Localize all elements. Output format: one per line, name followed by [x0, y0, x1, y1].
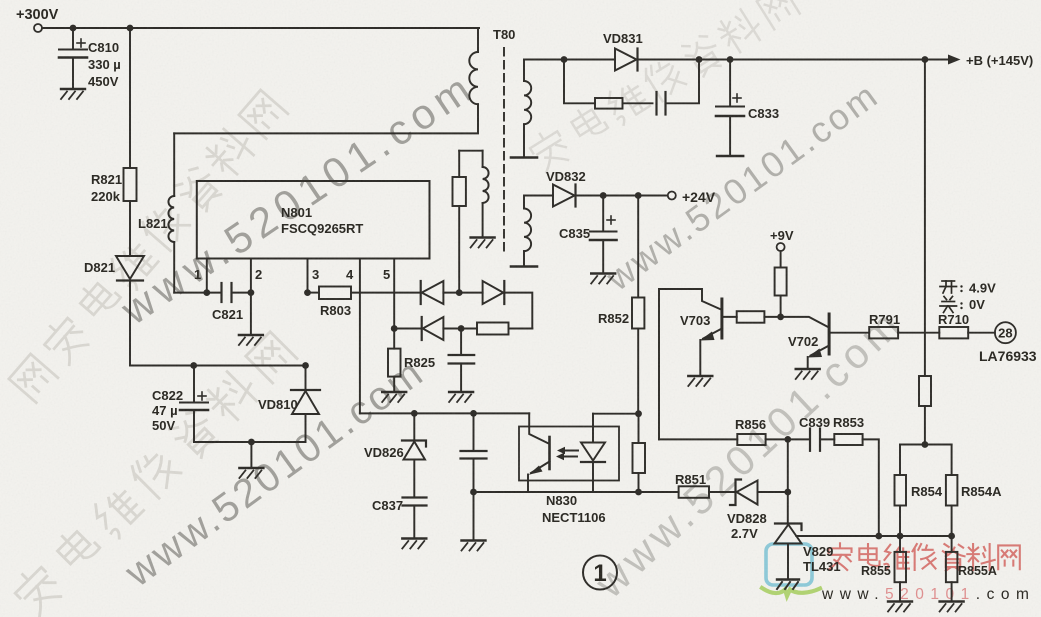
svg-text:4.9V: 4.9V	[969, 281, 996, 296]
terminal +300V	[34, 24, 42, 32]
ground secondary 1	[511, 157, 537, 159]
svg-text:V829: V829	[803, 544, 833, 559]
node snubber right	[696, 56, 703, 63]
ground row2 snub	[449, 392, 473, 402]
wire R856 row	[659, 438, 737, 440]
resistor R825	[388, 329, 401, 391]
svg-text:1: 1	[194, 267, 201, 282]
ground R855	[888, 602, 912, 612]
resistor snubber (unlabeled)	[564, 60, 653, 109]
svg-text:+B (+145V): +B (+145V)	[966, 53, 1033, 68]
node junction R821	[127, 25, 134, 32]
svg-text:www.520101.com: www.520101.com	[585, 298, 911, 607]
pin 4 stub	[359, 259, 361, 414]
resistor R854A	[946, 445, 958, 537]
capacitor row2 snub	[449, 329, 475, 391]
wire +300V rail	[42, 27, 479, 29]
node junction C822 top	[190, 362, 197, 369]
svg-text:1: 1	[593, 560, 606, 587]
resistor row2 (unlabeled)	[461, 323, 532, 335]
resistor R853	[834, 434, 879, 536]
wire V703 collector feed	[659, 289, 721, 439]
transformer T80 core	[503, 48, 505, 255]
transformer T80 secondary 1	[524, 60, 531, 157]
svg-text:C833: C833	[748, 106, 779, 121]
node junction C810	[70, 25, 77, 32]
node pin5	[391, 325, 422, 332]
resistor +B sense (unlabeled)	[919, 376, 931, 445]
resistor R854	[895, 445, 907, 537]
node pin2	[248, 289, 255, 334]
ground C810	[61, 89, 85, 99]
capacitor C822	[180, 366, 208, 443]
circled number 1	[583, 556, 617, 590]
arrow +B output	[948, 55, 961, 65]
node junction VD810 top	[302, 362, 309, 369]
node C833 tap	[727, 56, 734, 63]
svg-text:3: 3	[312, 267, 319, 282]
zener VD826	[402, 413, 426, 497]
svg-text:0V: 0V	[969, 297, 985, 312]
diode D row1 left	[421, 281, 460, 304]
svg-text:R854A: R854A	[961, 484, 1002, 499]
svg-text:TL431: TL431	[803, 559, 841, 574]
svg-text:R855A: R855A	[958, 564, 997, 578]
svg-text:R803: R803	[320, 303, 351, 318]
ground midcap	[462, 541, 486, 551]
pin 28 circle LA76933	[995, 322, 1016, 343]
ground C822 row	[239, 468, 263, 478]
node midcap tap	[470, 410, 477, 417]
capacitor C810	[59, 28, 87, 88]
svg-text:C835: C835	[559, 226, 590, 241]
inductor L821	[168, 133, 206, 292]
zener VD828	[730, 480, 788, 506]
optocoupler N830 box	[519, 427, 619, 481]
terminal +24V	[668, 192, 676, 200]
svg-text:R855: R855	[861, 564, 891, 578]
node R855 top	[897, 533, 904, 540]
svg-text:C839: C839	[799, 415, 830, 430]
op-amp U1 IC N801 box	[197, 181, 430, 259]
svg-text:www.520101.com: www.520101.com	[112, 62, 484, 334]
capacitor C837	[403, 498, 427, 538]
svg-text:T80: T80	[493, 27, 515, 42]
svg-text:50V: 50V	[152, 418, 175, 433]
node divider split	[900, 441, 952, 448]
ground pin2	[239, 335, 263, 345]
watermark logo tv	[762, 544, 820, 596]
svg-text:R825: R825	[404, 355, 435, 370]
svg-text:5: 5	[383, 267, 390, 282]
svg-text:330 µ: 330 µ	[88, 57, 121, 72]
svg-text:V703: V703	[680, 313, 710, 328]
node +B sense tap	[922, 56, 929, 63]
diode D821	[116, 256, 144, 366]
resistor R791	[829, 327, 939, 338]
wire +B sense column	[924, 60, 926, 377]
svg-text:FSCQ9265RT: FSCQ9265RT	[281, 221, 363, 236]
svg-text:2.7V: 2.7V	[731, 526, 758, 541]
wire ref row	[879, 535, 952, 537]
glyph guan (off)	[940, 297, 963, 313]
resistor R803	[308, 287, 421, 300]
wire C822 bottom row	[194, 441, 306, 443]
terminal +9V	[777, 243, 785, 251]
wire LED anode to R852	[593, 413, 639, 415]
node R855A top	[948, 533, 955, 540]
diode D row1 right	[459, 281, 532, 329]
capacitor C839	[788, 429, 835, 451]
ground R825	[382, 392, 406, 402]
capacitor C821	[207, 283, 251, 302]
svg-text:R710: R710	[938, 312, 969, 327]
glyph kai (on)	[940, 281, 963, 293]
diode opto LED	[581, 414, 605, 492]
svg-text:4: 4	[346, 267, 354, 282]
shunt regulator V829 TL431	[775, 524, 879, 590]
svg-text:L821: L821	[138, 216, 168, 231]
ground C833	[717, 155, 743, 157]
svg-text:220k: 220k	[91, 189, 121, 204]
transistor opto phototransistor	[528, 413, 550, 492]
svg-text:28: 28	[998, 326, 1012, 341]
node junction ground tap	[248, 439, 255, 467]
watermark chinese diagonal top-left	[9, 90, 288, 403]
resistor sense (unlabeled)	[453, 151, 483, 293]
svg-text:V702: V702	[788, 334, 818, 349]
svg-text:C810: C810	[88, 40, 119, 55]
capacitor C835	[590, 196, 617, 273]
node ref R853	[875, 533, 882, 540]
svg-text:N830: N830	[546, 493, 577, 508]
svg-text:R853: R853	[833, 415, 864, 430]
node row2 cap tap	[458, 325, 465, 332]
wire opto bottom row	[474, 491, 639, 493]
pin 3 stub	[307, 259, 309, 293]
resistor opto (unlabeled)	[633, 414, 646, 492]
ground secondary 2	[511, 266, 537, 268]
transformer T80 primary winding	[174, 28, 478, 133]
node pin3	[304, 289, 311, 296]
svg-text:R821: R821	[91, 172, 122, 187]
resistor R851	[639, 486, 735, 498]
resistor R855A	[946, 536, 958, 600]
svg-text:R854: R854	[911, 484, 943, 499]
node pin1	[203, 289, 210, 296]
resistor R821	[124, 28, 137, 256]
node R852 bottom	[635, 410, 642, 417]
node TL431 cathode column	[784, 489, 791, 496]
svg-text:VD832: VD832	[546, 169, 586, 184]
svg-text:VD826: VD826	[364, 445, 404, 460]
diode VD810	[291, 366, 320, 443]
resistor R855	[895, 536, 907, 600]
resistor R852	[632, 196, 644, 414]
transistor V703	[700, 299, 722, 375]
ground V702	[796, 369, 820, 379]
diode VD832	[553, 185, 668, 207]
svg-text:C837: C837	[372, 498, 403, 513]
diode VD831	[615, 49, 948, 71]
capacitor snubber (unlabeled)	[657, 60, 700, 115]
transformer T80 secondary 2	[524, 196, 553, 266]
watermark chinese diagonal bottom-left	[10, 332, 297, 617]
svg-text:VD810: VD810	[258, 397, 298, 412]
node snubber left	[561, 56, 568, 63]
svg-text:C822: C822	[152, 388, 183, 403]
svg-text:D821: D821	[84, 260, 115, 275]
svg-text:LA76933: LA76933	[979, 348, 1037, 364]
node R852 top	[635, 192, 642, 199]
svg-text:VD831: VD831	[603, 31, 643, 46]
svg-text:NECT1106: NECT1106	[542, 510, 606, 525]
svg-text:+9V: +9V	[770, 228, 794, 243]
ground V703	[688, 376, 712, 386]
svg-text:+24V: +24V	[682, 189, 716, 205]
svg-text:www.520101.com: www.520101.com	[821, 586, 1035, 603]
svg-text:2: 2	[255, 267, 262, 282]
node R856-C839 junction	[784, 436, 791, 524]
pin 1 stub	[206, 259, 208, 293]
resistor V703 base (unlabeled)	[722, 311, 781, 323]
node midcap bottom	[470, 489, 477, 539]
svg-text:450V: 450V	[88, 74, 119, 89]
svg-text:R852: R852	[598, 311, 629, 326]
watermark chinese diagonal top-middle	[526, 0, 799, 174]
ground C837	[402, 539, 426, 549]
watermark red chinese bottom-right	[828, 543, 1019, 570]
resistor R856	[737, 434, 788, 445]
svg-text:+300V: +300V	[16, 7, 59, 23]
pin 2 stub	[250, 259, 252, 293]
capacitor C833	[716, 60, 744, 155]
node VD826 tap	[411, 410, 418, 417]
wire +B rail	[524, 59, 615, 61]
resistor R710	[939, 327, 995, 338]
inductor sense winding	[483, 151, 489, 236]
svg-text:R791: R791	[869, 312, 900, 327]
svg-text:47 µ: 47 µ	[152, 403, 178, 418]
ground C835	[591, 274, 615, 284]
svg-text:C821: C821	[212, 307, 243, 322]
svg-text:R856: R856	[735, 417, 766, 432]
resistor +9V (unlabeled)	[775, 251, 787, 317]
pin 5 stub	[393, 259, 395, 329]
diode D row2	[422, 317, 461, 340]
svg-text:R851: R851	[675, 472, 706, 487]
node snubber tap	[456, 289, 463, 296]
ground sense winding	[471, 238, 495, 248]
wire D821 to VD810 row	[130, 365, 306, 367]
svg-text:N801: N801	[281, 205, 312, 220]
node R851 row left	[635, 489, 642, 496]
node base junction	[777, 314, 784, 321]
opto light arrows	[556, 447, 578, 460]
transistor V702	[781, 314, 830, 368]
svg-text:VD828: VD828	[727, 511, 767, 526]
node C835 tap	[600, 192, 607, 199]
ground R855A	[940, 602, 964, 612]
capacitor mid (unlabeled)	[461, 413, 487, 492]
wire pin4 feedback bus	[360, 412, 529, 414]
